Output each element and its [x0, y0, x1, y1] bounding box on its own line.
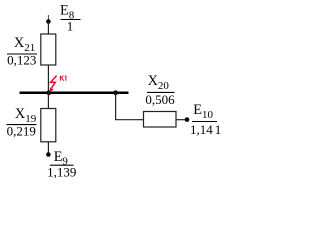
svg-text:0,506: 0,506: [145, 92, 175, 107]
label X20 value 0,506: [145, 73, 175, 107]
resistor X21: [41, 34, 56, 65]
svg-text:1: 1: [67, 19, 74, 34]
label E9 value 1,139: [47, 149, 76, 180]
svg-text:0,123: 0,123: [7, 52, 36, 67]
label K1: [60, 76, 66, 81]
svg-text:0,219: 0,219: [7, 123, 36, 138]
label E10 value 1,141: [190, 102, 221, 137]
label X21 value 0,123: [7, 35, 37, 68]
wire bus down to X20 level: [116, 93, 144, 120]
label E8 value 1: [60, 2, 81, 33]
wire bus to X19 top: [47, 93, 49, 109]
node dot E8 terminal: [46, 19, 51, 24]
wire E8 dot to X21 top: [47, 22, 49, 35]
node dot E9 terminal: [46, 152, 51, 157]
label X19 value 0,219: [7, 106, 37, 138]
svg-text:1,139: 1,139: [47, 165, 76, 180]
resistor X20: [144, 112, 177, 128]
svg-text:1,141: 1,141: [190, 122, 221, 137]
short-circuit bolt K1: [49, 76, 56, 93]
bus bar: [20, 92, 129, 95]
junction dot K1 node: [46, 90, 51, 95]
node dot E10 terminal: [185, 117, 190, 122]
wire X21 bottom to bus: [47, 65, 49, 93]
junction dot bus to X20 branch: [113, 90, 118, 95]
emf E8 arrow stub: [47, 15, 49, 20]
resistor X19: [41, 109, 56, 142]
wire X20 right to E10 dot: [176, 119, 187, 121]
wire X19 bottom to E9 dot: [47, 142, 49, 155]
